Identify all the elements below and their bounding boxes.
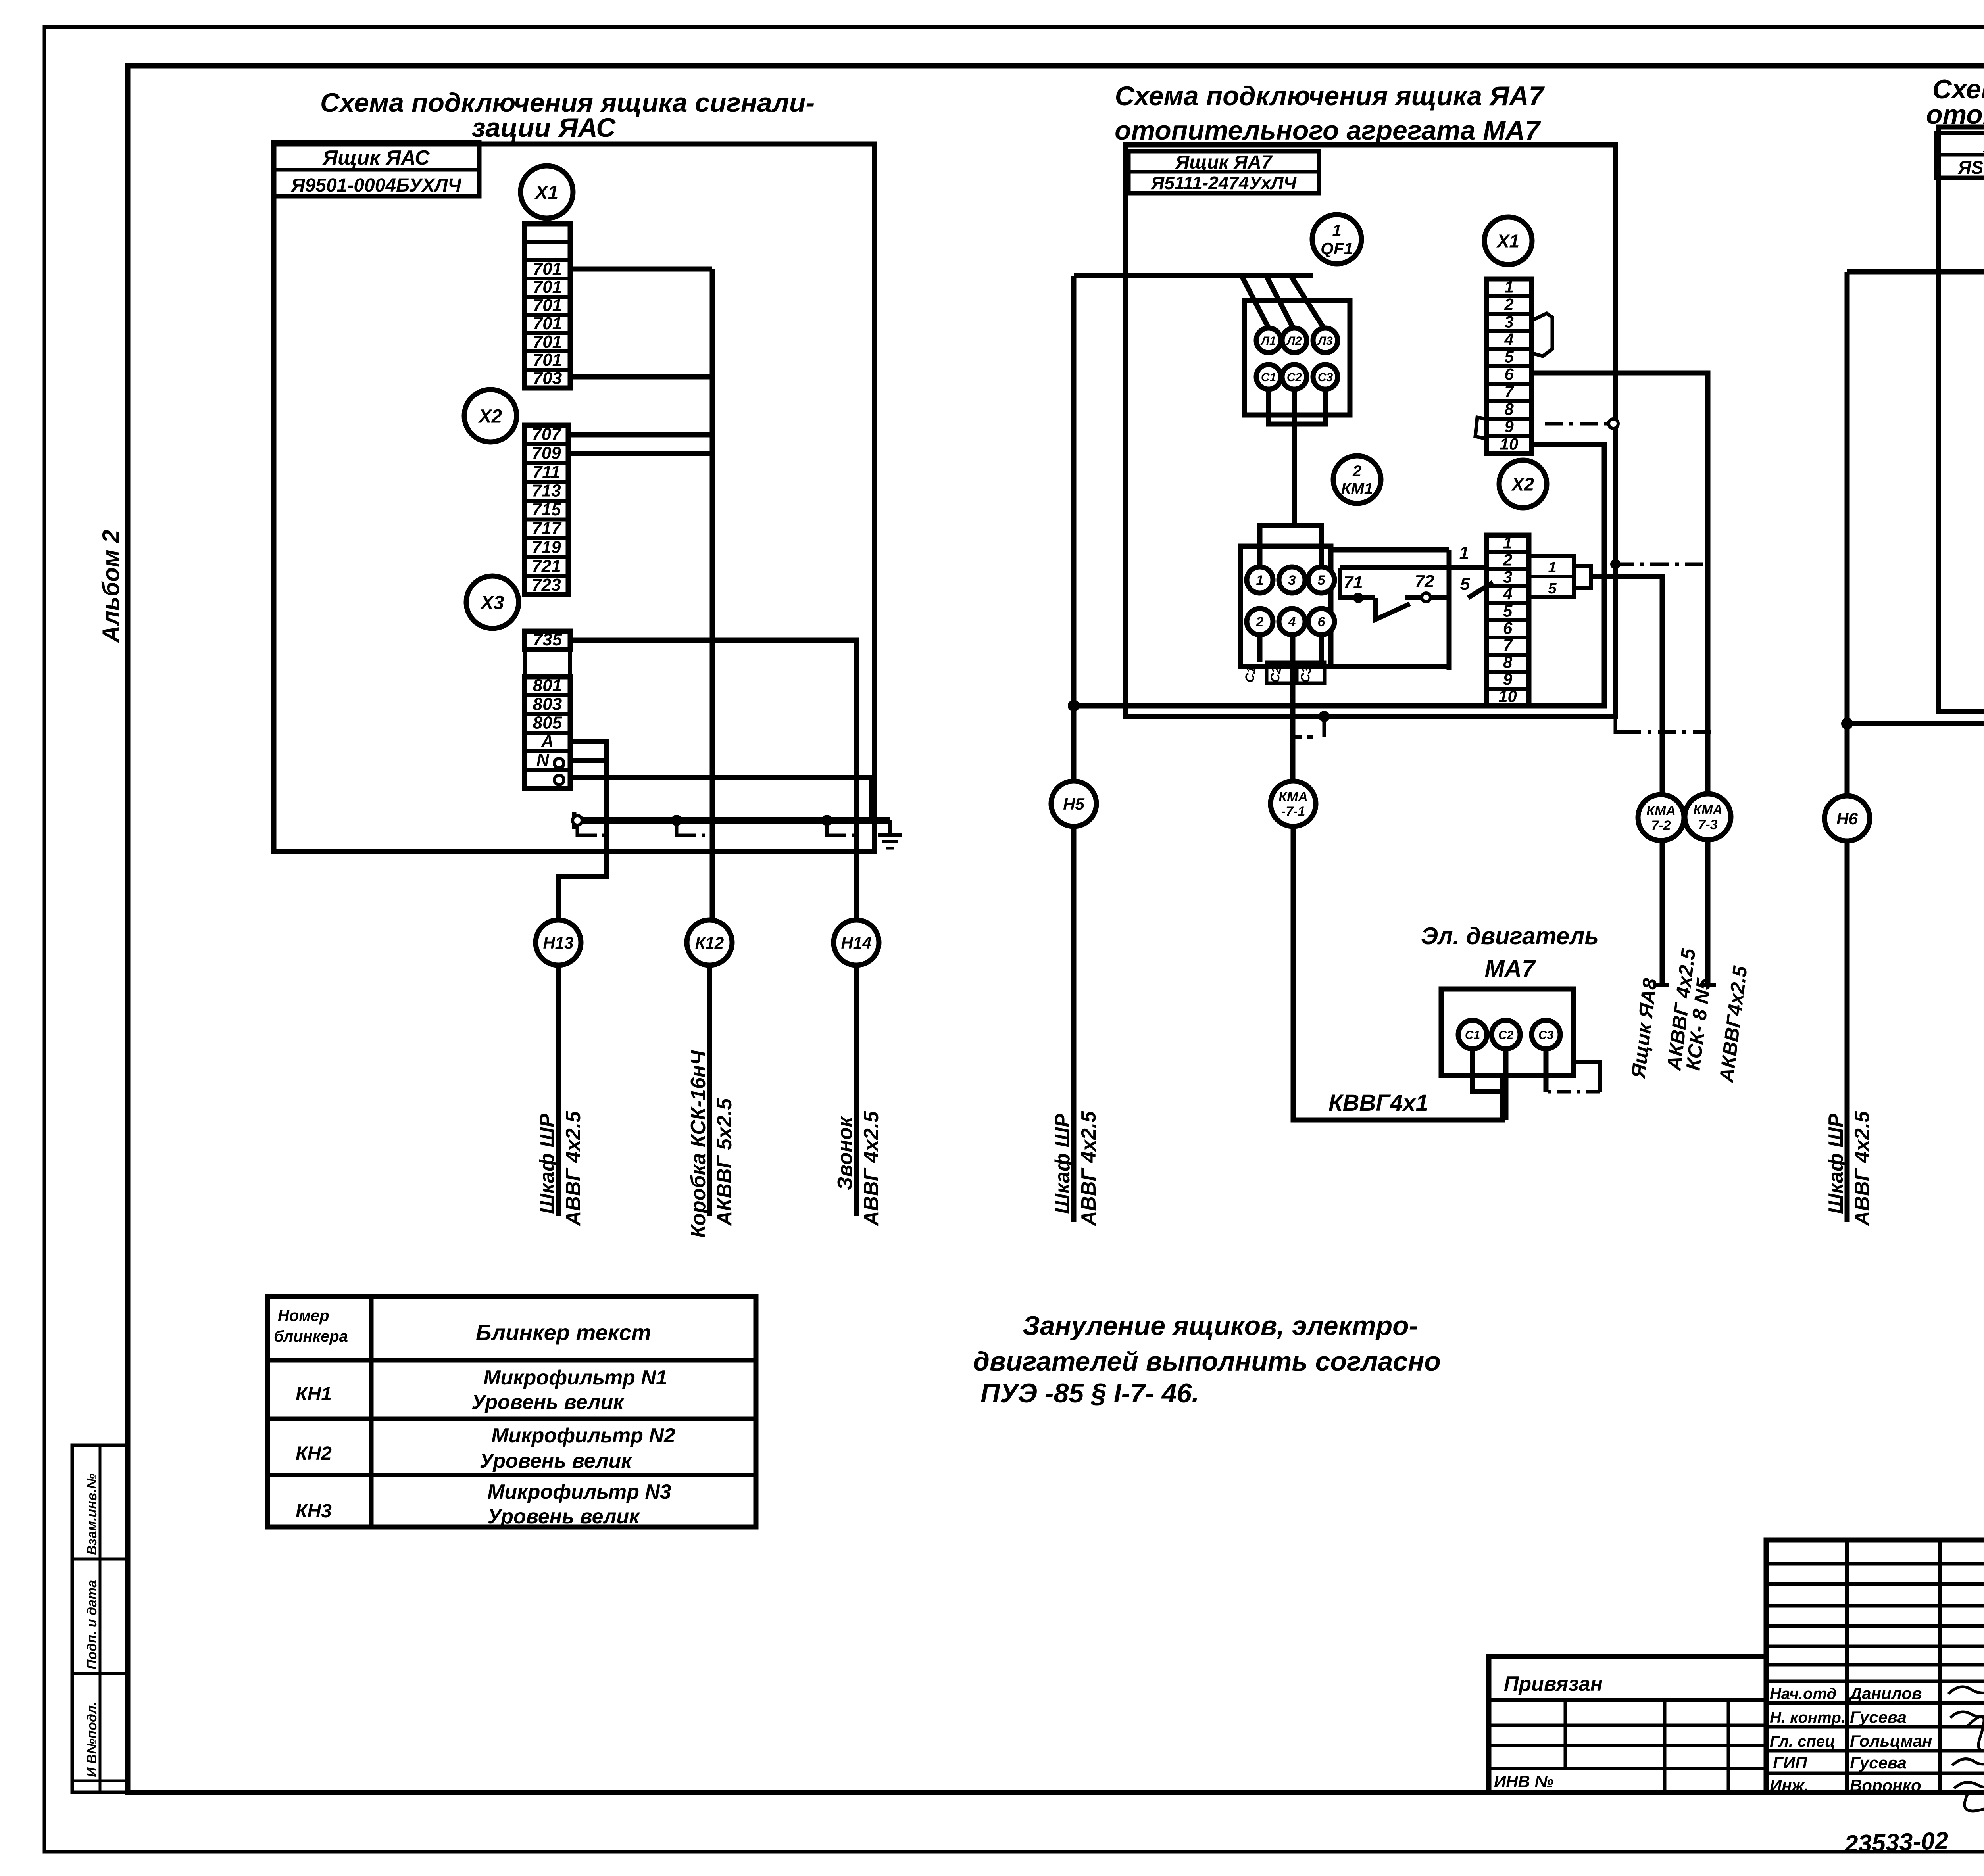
svg-text:721: 721 <box>532 557 561 576</box>
svg-text:709: 709 <box>532 444 561 463</box>
feeder lamp H6 <box>1845 272 1850 796</box>
stamp rows names <box>1766 1680 1984 1683</box>
svg-text:АВВГ 4х2.5: АВВГ 4х2.5 <box>562 1111 585 1227</box>
KM1 contact 1 <box>1247 567 1273 593</box>
svg-text:Гольцман: Гольцман <box>1850 1732 1932 1750</box>
svg-text:Я5111-2474УхЛЧ: Я5111-2474УхЛЧ <box>1151 173 1297 193</box>
svg-text:Подп. и дата: Подп. и дата <box>85 1580 100 1669</box>
svg-text:С2: С2 <box>1287 371 1302 384</box>
feeder drop L3 <box>1291 277 1326 332</box>
svg-text:5: 5 <box>1548 580 1557 597</box>
breaker QF1 box <box>1244 301 1350 415</box>
connector X2 (YAAS) <box>464 390 517 442</box>
motor C3 wire <box>1544 1049 1549 1092</box>
svg-text:Инж.: Инж. <box>1770 1776 1809 1795</box>
terminal strip X2 (YA7) <box>1486 535 1529 706</box>
blinker table column divider <box>369 1296 374 1527</box>
svg-text:6: 6 <box>1504 365 1514 383</box>
svg-text:X2: X2 <box>478 406 502 427</box>
QF1 terminal C2 <box>1282 365 1307 389</box>
svg-text:711: 711 <box>533 462 560 482</box>
svg-text:4: 4 <box>1503 585 1512 603</box>
svg-text:Воронко: Воронко <box>1850 1776 1921 1795</box>
connector X2 callout (YA7) <box>1499 460 1547 508</box>
cable H6 <box>1845 841 1850 1222</box>
YA8 label box <box>1936 133 1984 178</box>
wire 709 <box>568 451 712 456</box>
svg-text:1: 1 <box>1504 277 1513 296</box>
svg-text:7: 7 <box>1503 636 1513 655</box>
svg-text:1: 1 <box>1503 534 1512 552</box>
wire A to H13 <box>558 741 607 920</box>
shield hook K12 <box>677 825 686 835</box>
blinker table header row line <box>267 1358 756 1363</box>
svg-text:Н6: Н6 <box>1836 809 1858 828</box>
stamp grid vertical 2 <box>1845 1540 1849 1792</box>
feeder from cabinet <box>1074 273 1313 278</box>
wire 701 <box>570 267 712 272</box>
svg-text:АКВВГ 5х2.5: АКВВГ 5х2.5 <box>713 1098 736 1227</box>
dash-dot shield at box bottom right <box>1615 716 1623 732</box>
svg-text:АВВГ 4х2.5: АВВГ 4х2.5 <box>1077 1111 1100 1227</box>
terminal strip X3 (YAAS) <box>525 631 570 649</box>
svg-text:717: 717 <box>532 519 562 538</box>
wire C3 down <box>1294 389 1325 424</box>
KM1 contact box <box>1240 546 1331 666</box>
svg-text:10: 10 <box>1500 434 1519 453</box>
connector key notch right (YA7 X1) <box>1532 313 1552 356</box>
svg-text:805: 805 <box>533 713 562 733</box>
svg-text:Альбом 2: Альбом 2 <box>98 530 124 643</box>
svg-text:блинкера: блинкера <box>274 1328 348 1345</box>
svg-text:713: 713 <box>532 481 561 501</box>
bus left terminator <box>572 812 577 829</box>
svg-text:К12: К12 <box>695 933 724 952</box>
svg-text:Схема подключения ящика ЯА7: Схема подключения ящика ЯА7 <box>1115 81 1545 111</box>
junction dot N to H6 <box>1841 718 1853 730</box>
svg-text:С2: С2 <box>1267 665 1284 684</box>
motor wire KVVG <box>1293 826 1502 1120</box>
svg-text:Гусева: Гусева <box>1850 1708 1907 1726</box>
svg-text:1: 1 <box>1548 559 1556 576</box>
cable H14 <box>854 965 859 1216</box>
KK enclosure right <box>1447 550 1452 670</box>
svg-text:N: N <box>536 750 550 770</box>
svg-text:Н14: Н14 <box>841 933 871 952</box>
svg-text:23533-02: 23533-02 <box>1844 1827 1949 1858</box>
svg-text:Номер: Номер <box>278 1307 329 1325</box>
wire plug to KMA-7-2 <box>1591 576 1662 984</box>
svg-text:2: 2 <box>1256 614 1264 630</box>
terminal strip X1 (YA7) <box>1486 279 1532 453</box>
feeder drop L2 <box>1267 277 1295 332</box>
svg-text:КМА: КМА <box>1278 789 1308 805</box>
svg-text:1: 1 <box>1459 543 1469 563</box>
wire 5 diagonal to X2 row4 <box>1468 582 1493 598</box>
thermal contact bracket <box>1340 568 1375 598</box>
svg-text:Шкаф ШР: Шкаф ШР <box>536 1114 559 1214</box>
X2 plug box 1/5 <box>1529 556 1574 597</box>
svg-text:8: 8 <box>1503 653 1513 672</box>
svg-text:ЯS111-2474УхЛЧ: ЯS111-2474УхЛЧ <box>1957 157 1984 178</box>
shield hook H14 <box>827 825 837 835</box>
motor ground dash-dot <box>1548 1090 1600 1094</box>
svg-text:9: 9 <box>1503 670 1513 689</box>
svg-text:Коробка КСК-16нЧ: Коробка КСК-16нЧ <box>687 1050 710 1238</box>
ground bond circles in strip <box>554 758 564 768</box>
contactor coil lamp KMA-7-1 <box>1271 781 1316 826</box>
thermal contact 71 dot <box>1353 593 1363 603</box>
YA7 label box <box>1128 151 1319 193</box>
svg-text:КН3: КН3 <box>296 1501 332 1522</box>
svg-text:МА7: МА7 <box>1485 955 1536 982</box>
title block main frame <box>1766 1540 1984 1792</box>
svg-text:701: 701 <box>533 296 562 315</box>
X2 plug small square <box>1574 566 1591 588</box>
svg-text:Шкаф ШР: Шкаф ШР <box>1051 1114 1074 1214</box>
N wire to H6 (YA8) <box>1847 721 1984 726</box>
motor terminal C2 <box>1492 1020 1520 1049</box>
motor C2 wire <box>1503 1049 1509 1120</box>
feeder lamp H5 <box>1071 276 1077 782</box>
cable H5 <box>1071 826 1077 1222</box>
QF1 terminal L2 <box>1282 328 1307 353</box>
svg-text:КН1: КН1 <box>296 1384 332 1405</box>
stamp grid vertical 3 <box>1938 1540 1942 1792</box>
svg-text:Ящик ЯА7: Ящик ЯА7 <box>1175 152 1273 173</box>
privyazan block <box>1489 1657 1766 1792</box>
connector X1 (YAAS) <box>521 166 573 218</box>
svg-text:С1: С1 <box>1261 371 1276 384</box>
svg-text:701: 701 <box>533 314 562 333</box>
KM1 top bar <box>1260 526 1321 566</box>
svg-text:Микрофильтр N1: Микрофильтр N1 <box>483 1366 667 1389</box>
svg-text:1: 1 <box>1256 573 1264 588</box>
svg-text:QF1: QF1 <box>1321 239 1353 258</box>
wire 6 down <box>1319 635 1324 662</box>
svg-text:735: 735 <box>533 630 562 649</box>
svg-text:-7-1: -7-1 <box>1281 804 1305 819</box>
YAAS label box <box>273 142 479 196</box>
svg-text:КВВГ4х1: КВВГ4х1 <box>1328 1090 1428 1116</box>
svg-text:7: 7 <box>1504 382 1514 401</box>
wire C2 to KM1 <box>1292 389 1297 526</box>
svg-text:3: 3 <box>1503 568 1512 586</box>
wire 735 to H14 <box>570 640 856 920</box>
svg-text:КМА: КМА <box>1693 803 1723 818</box>
thermal contact 72 dot <box>1422 593 1430 602</box>
cable H13 <box>556 965 561 1216</box>
svg-text:2: 2 <box>1503 551 1512 569</box>
svg-text:6: 6 <box>1503 619 1513 637</box>
open dot on box edge row9 <box>1609 419 1618 428</box>
lamp H13 <box>536 920 581 965</box>
svg-text:двигателей выполнить согласн: двигателей выполнить согласно <box>973 1346 1441 1377</box>
svg-text:5: 5 <box>1504 347 1514 366</box>
motor terminal C1 <box>1458 1020 1487 1049</box>
wire 2 down <box>1257 635 1263 662</box>
feeder from cabinet (YA8) <box>1847 269 1984 275</box>
bus junction 1 <box>573 816 582 825</box>
svg-text:Л3: Л3 <box>1317 334 1333 348</box>
svg-text:4: 4 <box>1504 330 1513 348</box>
svg-text:Шкаф ШР: Шкаф ШР <box>1824 1114 1848 1214</box>
svg-text:803: 803 <box>533 695 562 714</box>
svg-text:701: 701 <box>533 350 562 370</box>
svg-text:Я9501-0004БУХЛЧ: Я9501-0004БУХЛЧ <box>290 175 462 196</box>
wire 1 to X2 row3 <box>1340 565 1486 570</box>
KM1 contact 6 <box>1308 609 1334 635</box>
KM1 contact 2 <box>1247 609 1273 635</box>
motor MA7 box <box>1441 989 1574 1075</box>
svg-text:715: 715 <box>532 500 561 519</box>
motor ground tab <box>1574 1062 1600 1092</box>
svg-text:Л2: Л2 <box>1286 334 1302 348</box>
svg-text:71: 71 <box>1344 573 1363 592</box>
privyazan grid <box>1489 1698 1766 1702</box>
thermal switch blade <box>1375 598 1410 620</box>
wire X1 row10 / N return <box>1074 445 1604 706</box>
wire net to K12 <box>710 269 715 920</box>
ground symbol <box>888 820 892 835</box>
QF1 terminal L3 <box>1313 328 1338 353</box>
svg-text:701: 701 <box>533 259 562 278</box>
strip row Подп. и дата <box>72 1672 128 1675</box>
motor C1 jumper <box>1473 1049 1506 1092</box>
svg-text:Звонок: Звонок <box>834 1116 857 1190</box>
wire X1 row6 to KMA-7-3 <box>1532 373 1708 984</box>
svg-text:723: 723 <box>532 575 561 595</box>
svg-text:701: 701 <box>533 332 562 351</box>
svg-text:ИНВ №: ИНВ № <box>1494 1772 1554 1791</box>
svg-text:Уровень велик: Уровень велик <box>487 1505 640 1528</box>
svg-text:КМА: КМА <box>1646 803 1676 818</box>
svg-text:801: 801 <box>533 676 562 695</box>
cable K12 <box>707 965 712 1216</box>
shield hook KMA-7-1 <box>1319 711 1330 722</box>
KM1 contact 5 <box>1308 567 1334 593</box>
QF1 terminal L1 <box>1256 328 1281 353</box>
KM1 contact 3 <box>1279 567 1305 593</box>
blinker table frame <box>267 1296 756 1527</box>
wire N <box>570 758 607 763</box>
terminal strip X2 (YAAS) <box>525 425 568 595</box>
connector key notch left (YA7 X1) <box>1475 417 1486 439</box>
svg-text:А: А <box>541 732 554 751</box>
svg-text:72: 72 <box>1415 572 1434 591</box>
shield hook H13 <box>577 825 587 835</box>
svg-text:Привязан: Привязан <box>1504 1672 1603 1696</box>
svg-text:701: 701 <box>533 277 562 297</box>
svg-text:Зануление ящиков, электро-: Зануление ящиков, электро- <box>1023 1311 1418 1341</box>
svg-text:2: 2 <box>1352 463 1361 480</box>
strip row Взам.инв.№ <box>72 1558 128 1561</box>
svg-text:С1: С1 <box>1242 665 1259 684</box>
svg-text:X3: X3 <box>480 592 504 613</box>
left doc strip box <box>72 1445 128 1792</box>
KM1 contact 4 <box>1279 609 1305 635</box>
svg-text:Гусева: Гусева <box>1850 1753 1907 1772</box>
svg-text:7-2: 7-2 <box>1651 818 1671 833</box>
strip divider column <box>99 1445 102 1792</box>
svg-text:3: 3 <box>1504 312 1513 331</box>
QF1 terminal C1 <box>1256 365 1281 389</box>
svg-text:КМ1: КМ1 <box>1341 480 1373 497</box>
svg-text:ГИП: ГИП <box>1773 1753 1807 1772</box>
svg-text:6: 6 <box>1318 614 1326 630</box>
KM1 callout <box>1333 456 1381 503</box>
svg-text:Ящик ЯАС: Ящик ЯАС <box>322 146 430 169</box>
svg-text:719: 719 <box>532 538 561 557</box>
svg-text:5: 5 <box>1460 574 1470 594</box>
svg-text:5: 5 <box>1503 602 1513 620</box>
wire C1 down <box>1269 389 1294 424</box>
svg-text:отопительного агрегата МА7: отопительного агрегата МА7 <box>1115 115 1541 146</box>
svg-text:9: 9 <box>1504 417 1514 436</box>
svg-text:1: 1 <box>1332 221 1341 240</box>
svg-text:Блинкер текст: Блинкер текст <box>476 1320 651 1345</box>
lamp H14 <box>834 920 879 965</box>
wire 4 down to KMA-7-1 <box>1290 635 1296 782</box>
svg-text:С3: С3 <box>1318 371 1333 384</box>
dash-dot X1 row9 shield <box>1545 422 1609 426</box>
svg-text:Уровень велик: Уровень велик <box>471 1391 625 1414</box>
svg-text:5: 5 <box>1318 573 1326 588</box>
svg-text:X1: X1 <box>534 182 559 203</box>
terminal strip X1 (YAAS) <box>525 224 570 388</box>
svg-text:Н5: Н5 <box>1063 795 1084 813</box>
svg-text:10: 10 <box>1498 687 1517 706</box>
ground bus (YAAS) <box>574 817 890 824</box>
svg-text:зации ЯАС: зации ЯАС <box>472 113 616 143</box>
KMA-7-3 lamp <box>1685 794 1731 840</box>
strip row Инв.№подл. <box>72 1780 128 1782</box>
svg-text:КН2: КН2 <box>296 1443 332 1464</box>
svg-text:7-3: 7-3 <box>1698 817 1717 832</box>
svg-text:С2: С2 <box>1498 1029 1514 1042</box>
svg-text:Взам.инв.№: Взам.инв.№ <box>85 1473 100 1555</box>
svg-text:Микрофильтр N3: Микрофильтр N3 <box>487 1480 671 1503</box>
KK enclosure bottom <box>1240 664 1449 669</box>
svg-text:707: 707 <box>532 424 562 444</box>
svg-text:Нач.отд: Нач.отд <box>1770 1685 1836 1703</box>
svg-text:АВВГ 4х2.5: АВВГ 4х2.5 <box>1851 1111 1874 1227</box>
wire PE row <box>570 778 871 820</box>
junction dot N to H5 <box>1068 700 1080 712</box>
svg-text:X1: X1 <box>1496 231 1519 252</box>
svg-text:С1: С1 <box>1465 1029 1480 1042</box>
svg-text:Микрофильтр N2: Микрофильтр N2 <box>491 1424 675 1447</box>
KMA-7-2 lamp <box>1638 795 1684 841</box>
YA8 enclosure box <box>1938 127 1984 712</box>
svg-text:4: 4 <box>1288 614 1296 630</box>
motor cable terminals C1 C2 C3 <box>1267 662 1294 683</box>
signatures <box>1948 1687 1984 1694</box>
svg-text:С3: С3 <box>1297 665 1314 684</box>
YAAS enclosure box <box>274 144 875 851</box>
svg-text:X2: X2 <box>1511 474 1534 495</box>
thermal fixed line right part <box>1405 595 1449 600</box>
bus junction 3 <box>821 815 832 826</box>
svg-text:Данилов: Данилов <box>1849 1684 1922 1703</box>
svg-text:8: 8 <box>1504 399 1514 418</box>
wire 707 <box>568 432 712 438</box>
lamp K12 <box>687 920 732 965</box>
breaker QF1 callout <box>1312 215 1361 264</box>
wire 703 <box>570 374 712 380</box>
KK enclosure top <box>1331 547 1449 553</box>
svg-text:2: 2 <box>1504 295 1513 313</box>
YA7 enclosure box <box>1125 145 1615 716</box>
svg-text:Эл. двигатель: Эл. двигатель <box>1421 923 1599 949</box>
svg-text:АВВГ 4х2.5: АВВГ 4х2.5 <box>860 1111 883 1227</box>
svg-text:Гл. спец: Гл. спец <box>1770 1733 1835 1750</box>
cable end ticks <box>1653 983 1669 987</box>
svg-text:Л1: Л1 <box>1260 334 1276 348</box>
QF1 terminal C3 <box>1313 365 1338 389</box>
motor terminal C3 <box>1532 1020 1560 1049</box>
svg-text:703: 703 <box>533 369 562 388</box>
dash-dot shield box to KMA-7-3 <box>1610 559 1621 569</box>
row line KH1 <box>267 1417 756 1421</box>
svg-text:Уровень велик: Уровень велик <box>479 1450 632 1473</box>
svg-text:ПУЭ -85 § I-7- 46.: ПУЭ -85 § I-7- 46. <box>980 1378 1199 1408</box>
feeder drop L1 <box>1242 277 1271 332</box>
svg-text:Н. контр.: Н. контр. <box>1770 1709 1846 1726</box>
svg-text:Н13: Н13 <box>543 933 573 952</box>
row line KH2 <box>267 1473 756 1477</box>
connector X1 callout (YA7) <box>1484 217 1532 265</box>
svg-text:И В№подл.: И В№подл. <box>85 1701 100 1777</box>
bus junction 2 <box>671 815 682 826</box>
svg-text:С3: С3 <box>1538 1029 1554 1042</box>
svg-text:3: 3 <box>1288 573 1296 588</box>
stamp rows upper <box>1766 1562 1984 1566</box>
connector X3 (YAAS) <box>466 576 519 628</box>
